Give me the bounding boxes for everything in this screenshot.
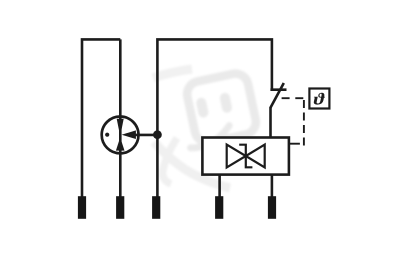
terminal 3 xyxy=(152,196,160,219)
gas filling dot xyxy=(105,133,109,137)
wire: middle loop (terminal 3 up, across top, down to thermal switch) xyxy=(157,39,272,196)
terminal 2 xyxy=(116,196,124,219)
bidirectional suppressor right triangle xyxy=(246,145,265,168)
wire: varistor box to terminal 4 xyxy=(218,174,221,197)
junction dot xyxy=(153,130,162,139)
dashed link: down to varistor box xyxy=(303,100,305,146)
temperature sensor box xyxy=(309,89,329,109)
thermal disconnect switch blade xyxy=(270,83,284,108)
arrester bottom electrode arrowhead xyxy=(116,137,125,150)
dashed link: into varistor box right edge xyxy=(290,143,300,145)
wire: varistor box to terminal 5 xyxy=(271,174,274,197)
wire: horizontal electrode from junction into gas discharge tube xyxy=(133,134,157,137)
bidirectional suppressor (back-to-back zener) left triangle xyxy=(227,145,246,168)
theta symbol xyxy=(314,93,325,105)
varistor box xyxy=(202,138,289,175)
suppressor center bar with zener hooks xyxy=(239,145,252,168)
gas discharge tube: re-draw through wire inside circle xyxy=(119,116,122,154)
watermark logo (plug smiley) xyxy=(153,69,258,188)
arrester top electrode arrowhead xyxy=(117,119,124,137)
thermal disconnect switch fixed bar xyxy=(270,88,286,91)
wire: vertical through gas discharge tube to terminal 2 xyxy=(119,39,122,196)
terminal 5 xyxy=(268,196,276,219)
terminal 1 xyxy=(78,196,86,219)
gas discharge tube (surge arrester) circle xyxy=(102,116,139,153)
wire: switch to varistor box xyxy=(269,107,272,138)
wire: left loop (terminal 1 up, across top, down into arrester) xyxy=(82,39,120,196)
arrester side electrode arrowhead xyxy=(122,130,136,139)
terminal 4 xyxy=(215,196,223,219)
dashed link: switch to temperature sensor xyxy=(282,97,310,99)
